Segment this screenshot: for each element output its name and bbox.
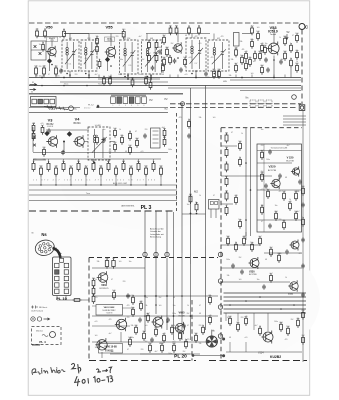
- transistor V603: [97, 271, 108, 284]
- svg-text:68: 68: [199, 313, 201, 315]
- resistor: [144, 166, 147, 177]
- svg-text:10n: 10n: [275, 205, 278, 207]
- resistor: [112, 290, 115, 300]
- svg-text:47n: 47n: [248, 57, 251, 59]
- svg-text:10n: 10n: [195, 202, 198, 204]
- handwriting numbers lower: [75, 376, 113, 386]
- svg-text:12k: 12k: [95, 36, 98, 38]
- svg-text:1n: 1n: [169, 55, 171, 57]
- transistor V50: [46, 46, 56, 57]
- resistor: [92, 161, 95, 172]
- svg-text:47: 47: [227, 317, 229, 319]
- wire stub: [284, 75, 286, 78]
- resistor: [54, 166, 57, 177]
- resistor: [295, 50, 298, 60]
- wire bus: [29, 189, 177, 191]
- resistor: [62, 161, 65, 172]
- wire stub: [251, 75, 253, 78]
- label V220 right: [286, 156, 294, 163]
- svg-text:33k: 33k: [297, 191, 300, 193]
- svg-text:560: 560: [159, 166, 162, 168]
- svg-text:4n7: 4n7: [147, 53, 150, 55]
- wire: [120, 332, 122, 342]
- svg-text:100n: 100n: [266, 159, 270, 161]
- capacitor: [158, 49, 162, 54]
- resistor: [288, 201, 291, 211]
- wire: [273, 28, 275, 44]
- svg-text:1 2 3: 1 2 3: [50, 40, 54, 42]
- wire: [32, 127, 34, 152]
- svg-text:4: 4: [131, 105, 132, 107]
- capacitor: [240, 269, 244, 274]
- switch contact: [34, 45, 37, 48]
- resistor: [98, 59, 101, 69]
- svg-text:820: 820: [175, 26, 178, 28]
- svg-text:220: 220: [301, 310, 304, 312]
- svg-text:1k: 1k: [119, 129, 121, 131]
- svg-text:V230: V230: [249, 271, 255, 274]
- svg-text:47: 47: [135, 131, 137, 133]
- resistor: [263, 45, 266, 55]
- svg-text:22k: 22k: [35, 29, 38, 31]
- resistor: [134, 325, 137, 335]
- svg-text:BC173B: BC173B: [249, 274, 257, 276]
- resistor: [260, 65, 263, 75]
- svg-text:47: 47: [213, 195, 215, 197]
- wire: [110, 353, 200, 355]
- svg-text:n15: n15: [245, 337, 248, 339]
- resistor: [42, 147, 45, 157]
- resistor R54: [34, 66, 37, 77]
- svg-text:820: 820: [295, 63, 298, 65]
- svg-text:4n7: 4n7: [258, 236, 261, 238]
- wire junction row: [98, 78, 160, 80]
- resistor: [183, 57, 186, 67]
- pin: [64, 283, 68, 287]
- wire: [221, 175, 272, 177]
- wire: [32, 344, 40, 346]
- svg-text:2k2: 2k2: [161, 63, 164, 65]
- wire: [29, 107, 80, 109]
- svg-text:220: 220: [145, 129, 148, 131]
- svg-text:220: 220: [279, 219, 282, 221]
- capacitor: [278, 173, 282, 178]
- capacitor: [301, 292, 305, 297]
- wire: [140, 353, 190, 355]
- wire stub: [123, 159, 125, 163]
- resistor: [113, 128, 116, 138]
- wire stub: [88, 75, 90, 78]
- connector PL4 dashed box: [32, 327, 62, 345]
- svg-text:L55: L55: [129, 65, 132, 67]
- resistor: [99, 166, 102, 177]
- svg-text:33k: 33k: [199, 343, 202, 345]
- wire stub: [85, 176, 87, 185]
- IF can F55: [120, 38, 139, 77]
- cable to PL10: [53, 247, 62, 259]
- svg-text:n15: n15: [244, 51, 247, 53]
- pad: [218, 334, 222, 338]
- svg-text:100: 100: [113, 128, 116, 130]
- svg-text:1k: 1k: [187, 305, 189, 307]
- svg-text:10n: 10n: [155, 40, 158, 42]
- wire stub: [169, 75, 171, 78]
- resistor R52: [44, 29, 47, 39]
- svg-text:BC328-25: BC328-25: [99, 288, 109, 290]
- resistor: [240, 55, 243, 65]
- resistor: [238, 219, 241, 229]
- wire stub: [100, 176, 102, 185]
- svg-text:10n: 10n: [187, 204, 190, 206]
- svg-text:2k2: 2k2: [171, 43, 174, 45]
- capacitor: [150, 337, 154, 342]
- wire: [92, 295, 218, 297]
- svg-text:4n7: 4n7: [147, 313, 150, 315]
- svg-text:1k: 1k: [241, 133, 243, 135]
- svg-text:1n5: 1n5: [251, 73, 254, 75]
- wire: [101, 352, 103, 358]
- pin 3: [44, 99, 49, 104]
- resistor: [226, 236, 229, 246]
- wire: [221, 145, 237, 147]
- label V230: [249, 271, 257, 277]
- wire stub: [245, 342, 247, 352]
- resistor: [282, 191, 285, 201]
- wire: [110, 141, 115, 143]
- wire: [69, 34, 71, 41]
- svg-text:68k: 68k: [250, 39, 253, 41]
- svg-text:10n: 10n: [173, 305, 176, 307]
- svg-text:V603: V603: [101, 284, 107, 287]
- svg-text:452: 452: [217, 38, 220, 40]
- svg-text:Ns: Ns: [41, 232, 47, 237]
- svg-text:33k: 33k: [240, 41, 243, 43]
- svg-text:68: 68: [159, 343, 161, 345]
- svg-text:33k: 33k: [229, 75, 232, 77]
- svg-text:470: 470: [122, 29, 125, 31]
- pin: [55, 283, 59, 287]
- wire: [37, 36, 64, 38]
- wire: [107, 56, 109, 71]
- capacitor 6u: [112, 258, 115, 269]
- pad PL3-1: [143, 252, 147, 256]
- wire board dashed top border: [221, 127, 302, 129]
- svg-text:220: 220: [141, 349, 144, 351]
- svg-text:PL 10: PL 10: [56, 296, 67, 301]
- svg-text:470: 470: [187, 339, 190, 341]
- resistor: [131, 307, 134, 317]
- resistor: [148, 343, 151, 353]
- svg-text:n15: n15: [288, 201, 291, 203]
- svg-text:150: 150: [129, 166, 132, 168]
- svg-text:Trias: Trias: [86, 193, 90, 195]
- resistor: [162, 35, 165, 45]
- resistor: [32, 123, 35, 133]
- resistor: [225, 205, 228, 216]
- transistor V221: [270, 178, 280, 189]
- wire: [283, 115, 306, 117]
- svg-text:220: 220: [42, 147, 45, 149]
- capacitor: [231, 263, 235, 268]
- svg-text:47: 47: [292, 35, 294, 37]
- svg-text:470: 470: [179, 117, 182, 119]
- capacitor: [138, 317, 142, 322]
- svg-text:4n7: 4n7: [155, 351, 158, 353]
- wire: [127, 74, 129, 79]
- wire stub: [124, 34, 126, 41]
- svg-text:4n7: 4n7: [297, 211, 300, 213]
- resistor: [188, 26, 191, 36]
- svg-text:33k: 33k: [227, 275, 230, 277]
- svg-text:100n: 100n: [158, 47, 162, 49]
- svg-text:10n: 10n: [281, 59, 284, 61]
- label value row: [35, 76, 59, 78]
- resistor: [122, 161, 125, 172]
- wire: [290, 68, 292, 78]
- transistor V220: [291, 166, 300, 176]
- svg-text:68: 68: [125, 151, 127, 153]
- wire: [226, 351, 302, 353]
- wire: [69, 71, 71, 78]
- resistor: [301, 310, 304, 320]
- svg-text:47: 47: [96, 56, 98, 58]
- svg-text:n15: n15: [208, 315, 211, 317]
- svg-text:n15: n15: [41, 123, 44, 125]
- svg-text:10n: 10n: [250, 242, 253, 244]
- svg-text:100n: 100n: [168, 149, 172, 151]
- label BF419: [47, 37, 58, 42]
- wire: [264, 252, 302, 254]
- svg-text:33: 33: [115, 166, 117, 168]
- resistor: [107, 161, 110, 172]
- resistor: [92, 294, 95, 304]
- resistor: [244, 316, 247, 326]
- svg-text:6k8: 6k8: [260, 65, 263, 67]
- wire interconnect: [224, 312, 307, 314]
- resistor: [290, 43, 293, 53]
- resistor: [162, 333, 165, 343]
- svg-text:88: 88: [63, 29, 65, 31]
- resistor: [198, 26, 201, 36]
- arrow feed left: [30, 82, 37, 94]
- svg-text:820: 820: [301, 186, 304, 188]
- svg-text:Trias: Trias: [98, 83, 103, 86]
- svg-text:4n7: 4n7: [269, 273, 272, 275]
- label V234 KU2B2: [258, 352, 281, 360]
- capacitor: [301, 237, 305, 242]
- svg-text:33k: 33k: [199, 117, 202, 119]
- pad: [218, 305, 222, 309]
- svg-text:10n: 10n: [261, 129, 264, 131]
- socket Bu: [69, 106, 74, 111]
- wire IF board top dashed border: [29, 22, 300, 24]
- resistor: [42, 42, 45, 52]
- resistor: [160, 343, 163, 353]
- capacitor: [285, 249, 289, 254]
- svg-text:3: 3: [125, 105, 126, 107]
- wire stub: [177, 75, 179, 78]
- svg-text:33: 33: [259, 326, 261, 328]
- switch contact: [39, 52, 42, 55]
- wire board divider: [29, 111, 168, 113]
- svg-text:47: 47: [127, 349, 129, 351]
- svg-text:F56: F56: [127, 38, 130, 40]
- svg-text:47n: 47n: [169, 26, 172, 28]
- resistor: [161, 63, 164, 73]
- svg-text:33: 33: [129, 131, 131, 133]
- resistor: [139, 301, 142, 311]
- capacitor 10u: [105, 258, 108, 269]
- svg-text:100n: 100n: [172, 313, 176, 315]
- wire NF board right dashed border: [191, 300, 193, 361]
- svg-text:68k: 68k: [236, 322, 239, 324]
- pin: [64, 289, 68, 293]
- junction: [69, 74, 71, 76]
- connector PL10 housing: [53, 257, 72, 296]
- wire: [190, 88, 192, 264]
- svg-text:33: 33: [254, 51, 256, 53]
- resistor: [225, 133, 228, 144]
- wire: [168, 87, 301, 89]
- svg-text:2k2: 2k2: [162, 35, 165, 37]
- svg-text:n15: n15: [173, 341, 176, 343]
- wire stub: [229, 342, 231, 352]
- wire: [92, 305, 96, 307]
- resistor R55: [42, 66, 45, 77]
- svg-text:10n: 10n: [240, 55, 243, 57]
- svg-text:100: 100: [256, 31, 259, 33]
- resistor: [279, 322, 282, 332]
- svg-text:220: 220: [39, 66, 42, 68]
- resistor: [103, 76, 106, 86]
- wire stub: [267, 313, 269, 331]
- wire: [181, 104, 183, 253]
- svg-text:6k8: 6k8: [279, 322, 282, 324]
- wire stub: [43, 75, 45, 78]
- resistor: [146, 313, 149, 323]
- svg-text:30: 30: [31, 92, 33, 94]
- cable hatch to Bu: [44, 105, 68, 110]
- transistor V51: [172, 42, 182, 53]
- svg-text:470: 470: [299, 253, 302, 255]
- label BF40: [105, 37, 115, 42]
- svg-text:468: 468: [98, 125, 101, 127]
- wire: [155, 211, 157, 256]
- svg-text:1k: 1k: [290, 58, 292, 60]
- transistor V602: [152, 316, 164, 329]
- wire: [182, 213, 206, 215]
- capacitor: [268, 223, 272, 228]
- svg-text:820: 820: [163, 137, 166, 139]
- svg-text:47: 47: [261, 221, 263, 223]
- handwriting numbers upper: [72, 363, 112, 373]
- pin: [55, 289, 59, 293]
- transistor V231: [288, 280, 298, 291]
- handwriting Prim Mikro: [32, 368, 65, 375]
- wire: [88, 71, 90, 78]
- wire: [111, 94, 146, 96]
- wire stub: [93, 159, 95, 163]
- svg-text:6k8: 6k8: [258, 51, 261, 53]
- svg-text:1k: 1k: [173, 325, 175, 327]
- wire stub: [213, 34, 215, 41]
- wire board dashed left border: [220, 128, 222, 361]
- svg-text:V4: V4: [75, 117, 81, 122]
- wire NF board dashed top border: [89, 257, 218, 259]
- transistor V55: [105, 46, 116, 59]
- svg-text:1k: 1k: [296, 61, 298, 63]
- wire: [146, 33, 164, 35]
- svg-text:n15: n15: [113, 142, 116, 144]
- resistor: [274, 211, 277, 221]
- wire stub: [130, 176, 132, 185]
- capacitor: [182, 323, 186, 328]
- svg-text:BF419: BF419: [49, 38, 56, 40]
- svg-text:470: 470: [234, 195, 237, 197]
- wire stub: [235, 75, 237, 78]
- svg-text:472: 472: [195, 36, 198, 38]
- svg-text:6k8: 6k8: [165, 47, 168, 49]
- wire: [230, 79, 301, 81]
- ferrite bead: [44, 131, 49, 136]
- svg-text:n15: n15: [261, 189, 264, 191]
- wire: [88, 34, 90, 41]
- svg-text:4n7: 4n7: [255, 325, 258, 327]
- junction: [63, 85, 65, 87]
- resistor: [132, 295, 135, 305]
- wire stub: [55, 176, 57, 185]
- wire interconnect: [224, 292, 307, 294]
- svg-text:68k: 68k: [99, 166, 102, 168]
- svg-text:1k: 1k: [285, 277, 287, 279]
- transistor V234: [262, 331, 274, 344]
- resistor: [175, 26, 178, 36]
- svg-text:1k: 1k: [99, 59, 101, 61]
- resistor: [250, 242, 253, 252]
- pad: [218, 252, 222, 256]
- svg-text:220: 220: [155, 53, 158, 55]
- resistor: [277, 253, 280, 263]
- svg-text:1k: 1k: [188, 119, 190, 121]
- svg-text:220: 220: [116, 36, 119, 38]
- resistor: [301, 335, 304, 345]
- resistor: [147, 53, 150, 63]
- capacitor: [166, 317, 170, 322]
- junction: [86, 85, 88, 87]
- svg-text:220: 220: [134, 325, 137, 327]
- transistor V3: [47, 135, 58, 147]
- relay box: [209, 200, 220, 219]
- svg-text:33k: 33k: [43, 159, 46, 161]
- svg-text:47: 47: [225, 205, 227, 207]
- resistor: [294, 211, 297, 221]
- resistor: [172, 343, 175, 353]
- symbol NF-Verst: [31, 306, 48, 313]
- svg-text:100: 100: [112, 290, 115, 292]
- svg-text:4 5 0 1 2: 4 5 0 1 2: [84, 107, 90, 109]
- svg-text:100n: 100n: [168, 353, 172, 355]
- svg-text:V220: V220: [268, 165, 275, 169]
- junction: [63, 141, 65, 143]
- svg-text:220: 220: [127, 317, 130, 319]
- resistor: [234, 47, 237, 57]
- transistor V230: [290, 240, 300, 251]
- wire stub: [55, 75, 57, 78]
- motor connector M1: [206, 330, 217, 348]
- svg-text:820: 820: [283, 36, 286, 38]
- svg-text:10n: 10n: [103, 129, 106, 131]
- wire stub: [33, 159, 35, 163]
